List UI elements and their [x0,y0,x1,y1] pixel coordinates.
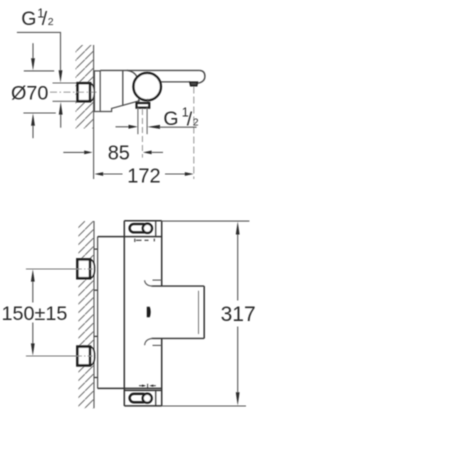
svg-text:/: / [187,108,193,130]
svg-text:150±15: 150±15 [2,303,68,325]
svg-text:317: 317 [221,303,256,326]
svg-text:2: 2 [48,16,54,28]
svg-text:G: G [163,108,178,130]
svg-text:85: 85 [108,142,130,164]
svg-text:Ø70: Ø70 [11,83,48,105]
svg-text:172: 172 [127,165,160,187]
svg-text:2: 2 [193,116,199,128]
svg-text:G: G [21,8,36,30]
